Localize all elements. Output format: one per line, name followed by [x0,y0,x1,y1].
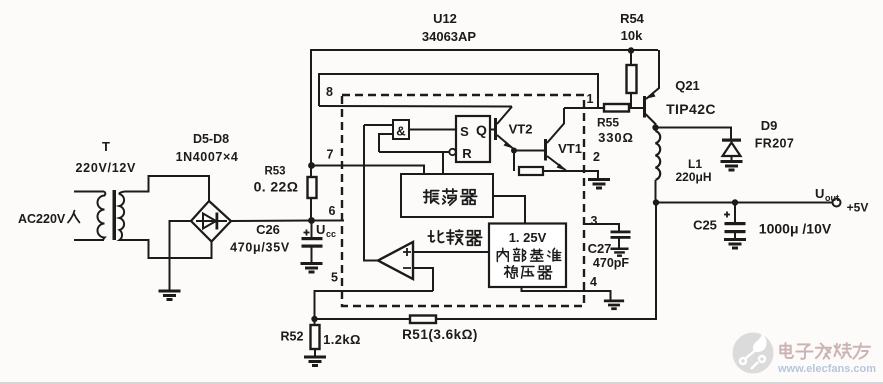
comparator + input from ref box [413,251,489,253]
R54 leads [630,51,632,66]
junction output node [653,199,659,205]
Q21 emitter diagonal and riser [646,50,659,99]
ground below C27 [610,249,628,256]
resistor R54 body [627,65,637,93]
comparator output up to AND [364,125,378,261]
ground at pin 2 [588,180,610,189]
CJK text oscillator (zhen dang qi) [424,189,477,205]
svg-text:1: 1 [587,92,594,106]
svg-text:6: 6 [329,204,336,218]
junction R54 top on Vcc rail [628,47,634,53]
svg-text:www.elecfans.com: www.elecfans.com [777,363,876,375]
AND gate box [393,120,409,139]
transformer T secondary winding [119,192,125,241]
pin7 wire into oscillator [312,166,425,175]
svg-text:&: & [396,124,405,139]
output line [656,202,832,204]
svg-text:1.2kΩ: 1.2kΩ [323,332,361,347]
svg-text:5: 5 [331,271,338,285]
svg-text:cc: cc [326,229,336,239]
svg-text:FR207: FR207 [755,137,795,151]
svg-text:L1: L1 [688,157,702,171]
svg-text:1N4007×4: 1N4007×4 [176,150,239,164]
wire y106 from pin8 stub to VT2 collector [319,105,512,108]
svg-text:D9: D9 [761,118,778,133]
op-amp U12 internal block dashed boundary [342,95,584,306]
svg-text:470μ/35V: 470μ/35V [230,241,290,255]
svg-text:220V/12V: 220V/12V [76,161,137,175]
Q out to VT2 base [490,129,494,131]
svg-text:1000μ /10V: 1000μ /10V [759,221,832,237]
svg-text:AC220V: AC220V [18,212,66,226]
svg-text:4: 4 [590,275,597,289]
diode D9 [722,139,741,142]
svg-text:TIP42C: TIP42C [666,101,716,117]
junction pin 7 sense node [308,162,315,169]
inductor L1 [656,131,661,180]
svg-text:C25: C25 [693,218,717,233]
svg-text:C27: C27 [588,241,612,256]
flip-flop R input inverting bubble [449,149,455,155]
D9 anode lead [731,156,733,161]
VT2 emitter node to VT1 base [514,150,544,152]
VT1 collector diagonal and riser [547,108,564,143]
pin4 wire to ground [522,287,611,300]
svg-text:330Ω: 330Ω [598,130,634,145]
resistor R55 body [604,104,629,112]
resistor VT1 base-emitter body [519,167,543,175]
junction C25 tap on output line [732,199,738,205]
CJK glyph ru (enter) of AC220V input label [68,211,80,223]
ground below C25 [724,240,746,249]
oscillator block box [401,174,493,217]
Q21 base bar [643,96,646,118]
svg-text:R55: R55 [597,116,619,130]
wire secondary bottom lead to bridge bottom vertex [125,240,212,258]
output terminal circle [833,199,841,207]
svg-text:R54: R54 [620,11,645,26]
junction node Ucc (pin 6) [308,217,315,224]
AND gate input wires [364,124,393,126]
diode symbol inside bridge [196,220,227,222]
svg-text:Q21: Q21 [675,78,700,93]
svg-text:R53: R53 [264,166,285,178]
svg-text:R51(3.6kΩ): R51(3.6kΩ) [402,327,478,342]
ground below D9 [721,162,743,171]
svg-text:VT2: VT2 [509,122,533,137]
bridge rectifier D5-D8 diamond [191,201,231,242]
op-amp comparator triangle [378,242,413,279]
Q21 emitter arrow (PNP, pointing into base) [647,92,656,99]
junction R52/R51 divider node [311,316,317,322]
svg-text:S: S [460,124,469,139]
wire bridge left vertex to ground [170,221,192,290]
junction VT2 emitter / VT1 base node [511,148,517,154]
Q21 collector node to D9 [656,128,732,140]
resistor R53 body [308,177,317,198]
R55 lead to Q21 base [629,107,643,109]
pin3 wire and C27 [585,224,619,232]
svg-text:+5V: +5V [847,201,869,215]
ground below R52 [304,357,326,366]
svg-text:U12: U12 [433,11,457,26]
faint scan border at bottom [0,382,883,384]
comparator - input down to pin5 line [413,268,433,291]
capacitor C27 plates [611,231,631,234]
ground at bridge negative output [159,291,181,300]
pin5 feedback wire [315,291,434,319]
comparator + and - marks [403,248,411,268]
AND output to S [409,129,456,131]
svg-text:7: 7 [327,148,334,162]
resistor R52 body [311,325,320,349]
emitter resistor drop [513,151,515,172]
transformer T core [113,190,117,240]
svg-text:470pF: 470pF [593,256,629,270]
svg-text:C26: C26 [256,222,280,237]
bottom feedback line to output [315,318,411,320]
svg-text:VT1: VT1 [558,141,582,156]
oscillator to ref box [493,196,525,224]
VT2 emitter diagonal [497,135,513,149]
svg-text:34063AP: 34063AP [422,29,477,44]
svg-text:D5-D8: D5-D8 [193,132,229,146]
svg-text:U: U [815,186,824,201]
VT2 collector diagonal [497,107,512,125]
pin8 to pin1 interconnect loop [319,74,598,108]
wire: VT1 collector to R55 [564,107,604,109]
svg-text:Q: Q [476,122,487,138]
svg-text:2: 2 [593,150,600,164]
C26 leads [311,221,313,238]
pin6 wire: bridge to Ucc to dashed box [231,220,344,223]
VT1 base bar [544,139,547,161]
R line to flipflop R bubble and osc [379,151,449,153]
junction Q21 collector switch node [652,124,658,130]
pin2 wire to ground [543,171,598,178]
SR flip-flop box [456,116,490,162]
CJK text internal reference regulator lines [497,248,560,279]
VT2 emitter arrow [504,142,514,149]
svg-text:R52: R52 [281,330,304,344]
VT1 emitter diagonal [547,156,566,171]
svg-text:3: 3 [591,214,598,228]
Q21 collector diagonal [646,114,657,125]
capacitor C26 plates with polarity mark [302,237,323,240]
wire primary leads [74,191,104,193]
U12 outer rail: top edge + left edge [311,50,658,221]
L1 bottom lead [655,180,657,203]
R52 leads [314,319,316,325]
svg-text:U: U [316,222,325,237]
svg-text:10k: 10k [621,28,643,43]
elecfans watermark logo [733,333,774,374]
svg-text:R: R [462,146,472,161]
1.25V internal reference regulator box [489,224,566,288]
svg-text:1. 25V: 1. 25V [509,230,547,245]
ground at pin 4 [604,301,624,309]
capacitor C25 plates with polarity mark [725,222,746,225]
VT1 emitter arrow [557,164,567,171]
ground below C26 [301,264,323,273]
svg-text:8: 8 [326,85,333,99]
svg-text:0. 22Ω: 0. 22Ω [254,179,299,195]
resistor R51 body [410,316,436,324]
transformer T primary winding [98,192,106,241]
svg-text:out: out [825,193,839,203]
VT2 base bar [494,118,497,140]
svg-text:220μH: 220μH [675,170,711,184]
wire secondary top lead to bridge top vertex [125,176,210,201]
svg-text:T: T [102,139,110,154]
CJK text comparator (bi jiao qi) [428,230,481,245]
C25 leads [734,203,736,223]
